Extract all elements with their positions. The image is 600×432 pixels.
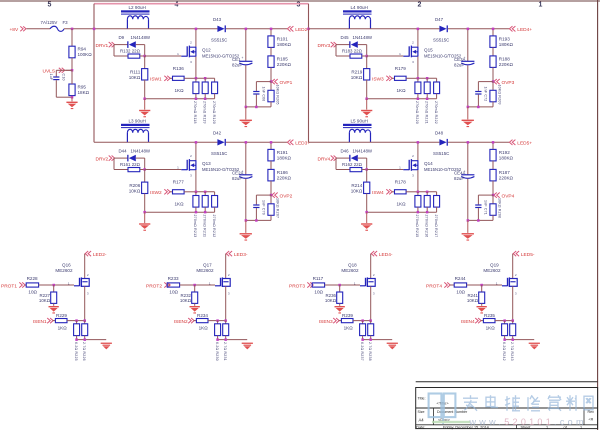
svg-text:1KΩ: 1KΩ: [486, 325, 496, 330]
resistor R244 10Ω: [450, 276, 502, 295]
ground gate pulldown: [190, 306, 200, 314]
diode D9 1N4148W: [114, 35, 151, 48]
svg-text:3: 3: [87, 292, 89, 296]
svg-text:10KΩ: 10KΩ: [39, 298, 51, 303]
wire sense bottom rail: [145, 211, 215, 213]
wire +8V rail to L4: [309, 28, 350, 30]
port DRV1: [96, 42, 115, 49]
svg-text:2: 2: [412, 154, 414, 158]
svg-text:5: 5: [48, 1, 52, 8]
node divider top junction: [270, 141, 273, 144]
transistor Q14 ME15N10-G/TO252: [399, 154, 462, 177]
ground channel source: [361, 212, 372, 231]
svg-text:D47: D47: [435, 17, 444, 22]
resistor R233 10Ω: [167, 276, 215, 295]
wire sense bottom rail: [505, 339, 535, 341]
svg-text:R244: R244: [455, 276, 466, 281]
wire Q19 source: [512, 286, 514, 320]
svg-text:R192: R192: [499, 150, 510, 155]
svg-text:18KΩ: 18KΩ: [78, 90, 90, 95]
svg-text:270mΩ R217: 270mΩ R217: [434, 215, 438, 238]
svg-text:10Ω: 10Ω: [169, 290, 178, 295]
sheet right border: [597, 0, 599, 430]
resistor R205 10KΩ: [268, 82, 280, 107]
resistor R111 10KΩ: [129, 56, 148, 99]
grid zone number 2: [418, 1, 422, 8]
svg-text:Q17: Q17: [203, 263, 212, 268]
node pulldown rail junction: [365, 211, 368, 214]
resistor R222 270mΩ: [434, 78, 440, 124]
svg-text:R162 22Ω: R162 22Ω: [342, 162, 363, 167]
svg-text:R178: R178: [395, 180, 406, 185]
resistor R191 180KΩ: [268, 142, 292, 161]
svg-text:1KΩ: 1KΩ: [58, 325, 68, 330]
port OVP3: [494, 79, 515, 86]
node sense bottom b: [224, 338, 227, 341]
svg-text:1N4148W: 1N4148W: [131, 35, 151, 40]
svg-text:1KΩ: 1KΩ: [175, 202, 185, 207]
svg-text:1N4148W: 1N4148W: [131, 149, 151, 154]
node cap ground junction: [245, 219, 248, 222]
svg-text:2.7Ω R226: 2.7Ω R226: [82, 342, 86, 361]
ground output cap: [240, 107, 252, 127]
wire LED2- to Q16 drain: [84, 254, 86, 279]
wire OVP bottom rail: [468, 106, 493, 108]
svg-text:Rev: Rev: [588, 410, 595, 414]
port OVP2: [272, 193, 293, 200]
resistor R235 1KΩ: [481, 313, 513, 330]
svg-text:D48: D48: [435, 131, 444, 136]
grid zone number 5: [48, 1, 52, 8]
svg-text:6.2Ω R237: 6.2Ω R237: [360, 342, 364, 361]
svg-text:1nF C71: 1nF C71: [483, 200, 487, 215]
node sense bottom b: [369, 338, 372, 341]
resistor R231 2.7Ω: [223, 321, 229, 361]
svg-text:LED3-: LED3-: [234, 252, 248, 258]
svg-text:10KΩ: 10KΩ: [325, 298, 337, 303]
svg-text:OVP3: OVP3: [502, 80, 515, 86]
svg-text:R228: R228: [27, 276, 38, 281]
ground channel source: [139, 99, 150, 118]
svg-text:1nF C70: 1nF C70: [261, 200, 265, 215]
svg-text:180KΩ: 180KΩ: [277, 156, 292, 161]
resistor R216 270mΩ: [424, 192, 430, 238]
port LED4+: [509, 26, 532, 33]
node UVLS: [71, 69, 74, 72]
port +8V: [10, 26, 27, 33]
resistor R132 22Ω: [114, 45, 145, 59]
node output cap junction: [467, 141, 470, 144]
resistor R220 270mΩ: [415, 78, 421, 124]
svg-text:+: +: [464, 170, 466, 174]
svg-text:R239: R239: [342, 313, 353, 318]
resistor R242 6.2Ω: [502, 321, 508, 361]
diode D46 1N4148W: [336, 149, 373, 162]
resistor R227 10KΩ: [39, 285, 57, 306]
svg-text:ISW3: ISW3: [372, 77, 384, 83]
svg-text:<R: <R: [589, 418, 594, 422]
node OVP rail junction: [477, 106, 480, 109]
svg-text:Q19: Q19: [490, 263, 499, 268]
svg-text:10KΩ: 10KΩ: [351, 189, 363, 194]
svg-text:82uF: 82uF: [232, 62, 242, 67]
node output cap junction: [245, 28, 248, 31]
resistor R208 10KΩ: [490, 195, 502, 220]
svg-text:Date:: Date:: [416, 426, 425, 430]
resistor R238 2.7Ω: [368, 321, 374, 361]
wire source sense rail: [196, 77, 215, 79]
wire source sense rail: [418, 77, 437, 79]
svg-text:270mΩ R220: 270mΩ R220: [415, 101, 419, 124]
node source junction: [417, 191, 420, 194]
node cap ground junction: [467, 219, 470, 222]
svg-text:3: 3: [412, 60, 414, 64]
svg-text:2: 2: [515, 273, 517, 277]
node sense top a: [503, 319, 506, 322]
svg-text:10Ω: 10Ω: [456, 290, 465, 295]
watermark url www.520101.com: [469, 417, 587, 427]
svg-text:ME2602: ME2602: [341, 268, 359, 273]
svg-text:+8V: +8V: [10, 27, 19, 33]
svg-text:10KΩ: 10KΩ: [129, 75, 141, 80]
port ISEN1: [33, 318, 53, 325]
svg-text:270mΩ R119: 270mΩ R119: [202, 101, 206, 124]
inductor L3 90uH: [121, 119, 150, 143]
node sense bottom junction b: [204, 211, 207, 214]
resistor R193 180KΩ: [490, 29, 514, 48]
transistor Q12 ME15N10-G/TO252: [177, 41, 240, 64]
node sense bottom b: [512, 338, 515, 341]
watermark book logo: [429, 394, 470, 425]
node sense bottom b: [84, 338, 87, 341]
resistor R228 10Ω: [25, 276, 74, 295]
svg-text:R193: R193: [499, 37, 510, 42]
capacitor CE2A 82uF: [232, 142, 252, 220]
svg-text:A4: A4: [419, 417, 425, 422]
wire OVP bottom rail: [246, 106, 271, 108]
wire gate to Q12: [145, 55, 182, 57]
wire source sense rail: [418, 191, 437, 193]
svg-text:ISEN3: ISEN3: [319, 319, 333, 325]
resistor R118 270mΩ: [193, 78, 199, 123]
node sense top a: [361, 319, 364, 322]
svg-text:LED2+: LED2+: [295, 27, 310, 33]
svg-text:2: 2: [228, 273, 230, 277]
svg-text:270mΩ R221: 270mΩ R221: [424, 101, 428, 124]
svg-text:1N4148W: 1N4148W: [353, 35, 373, 40]
svg-text:270mΩ R212: 270mΩ R212: [212, 215, 216, 238]
svg-text:Size: Size: [418, 410, 425, 414]
capacitor C10: [49, 70, 72, 97]
wire +8V rail to L5: [309, 141, 350, 143]
node gate junction: [365, 55, 368, 58]
svg-text:OVP4: OVP4: [502, 193, 515, 199]
svg-text:1KΩ: 1KΩ: [344, 325, 354, 330]
node sense rail junction: [204, 191, 207, 194]
wire sense bottom rail: [363, 339, 393, 341]
resistor R226 2.7Ω: [82, 321, 88, 361]
svg-text:82uF: 82uF: [454, 176, 464, 181]
svg-text:ISEN1: ISEN1: [33, 319, 47, 325]
svg-text:R183 22Ω: R183 22Ω: [342, 48, 363, 53]
node divider top junction: [270, 28, 273, 31]
wire Q15 drain: [417, 29, 419, 47]
node sense bottom junction a: [195, 98, 198, 101]
ground output cap: [462, 220, 474, 240]
svg-text:www.520101.com: www.520101.com: [469, 417, 587, 427]
wire D47 to output: [448, 28, 509, 30]
svg-text:PROT1: PROT1: [1, 284, 17, 290]
node bus/rail crossing left: [93, 28, 96, 31]
svg-text:R219: R219: [351, 70, 362, 75]
resistor R94: [69, 29, 92, 71]
node sense top b: [224, 319, 227, 322]
port UVLS: [43, 68, 73, 75]
port ISEN2: [174, 318, 194, 325]
resistor R237 6.2Ω: [360, 321, 366, 361]
wire sense bottom rail: [77, 339, 107, 341]
svg-text:LED5+: LED5+: [517, 141, 532, 147]
svg-text:C10: C10: [62, 74, 66, 81]
svg-text:1KΩ: 1KΩ: [397, 88, 407, 93]
node OVP rail junction: [255, 106, 258, 109]
node gate junction: [338, 284, 341, 287]
node divider top junction: [492, 28, 495, 31]
resistor R217 270mΩ: [434, 192, 440, 238]
svg-text:DRV1: DRV1: [96, 43, 109, 49]
node pulldown rail junction: [365, 98, 368, 101]
ground gate pulldown: [477, 306, 487, 314]
resistor R225 6.2Ω: [74, 321, 80, 361]
ground output cap: [462, 107, 474, 127]
resistor R214 10KΩ: [351, 170, 370, 213]
svg-text:10KΩ: 10KΩ: [180, 298, 192, 303]
port LED3+: [287, 140, 310, 147]
wire LED4- to Q18 drain: [370, 254, 372, 279]
svg-text:3: 3: [412, 173, 414, 177]
svg-text:CE1: CE1: [232, 57, 241, 62]
wire gate to Q13: [145, 169, 182, 171]
port OVP4: [494, 193, 515, 200]
wire OVP bottom rail: [468, 219, 493, 221]
node drain junction: [417, 28, 420, 31]
node drain junction: [195, 28, 198, 31]
diode D44 1N4148W: [114, 149, 151, 162]
inductor L2 90uH: [121, 5, 150, 29]
svg-text:ME2602: ME2602: [196, 268, 214, 273]
wire sense bottom rail: [218, 339, 248, 341]
svg-text:DRV3: DRV3: [318, 43, 331, 49]
resistor R221 270mΩ: [424, 78, 430, 124]
svg-text:270mΩ R222: 270mΩ R222: [434, 101, 438, 124]
resistor R188 220KΩ: [490, 47, 514, 81]
wire Q15 source: [417, 57, 419, 79]
svg-text:D43: D43: [213, 17, 222, 22]
port OVP1: [272, 79, 293, 86]
svg-text:3: 3: [228, 292, 230, 296]
svg-text:2: 2: [418, 1, 422, 8]
node sense top a: [75, 319, 78, 322]
transistor Q17 ME2602: [196, 263, 230, 296]
resistor R162 22Ω: [336, 158, 367, 172]
svg-text:PROT3: PROT3: [289, 284, 305, 290]
diode D43 SS515C: [211, 17, 227, 42]
port LED2+: [287, 26, 310, 33]
svg-text:F3: F3: [63, 20, 69, 25]
capacitor CE4A 82uF: [454, 142, 474, 220]
svg-text:R179: R179: [395, 66, 406, 71]
svg-text:DRV2: DRV2: [96, 157, 109, 163]
ground sense: [529, 343, 540, 350]
svg-text:2: 2: [412, 41, 414, 45]
svg-text:R214: R214: [351, 183, 362, 188]
svg-text:R117: R117: [313, 276, 324, 281]
node sense top b: [84, 319, 87, 322]
svg-text:7A/125V: 7A/125V: [41, 20, 58, 25]
node gate junction: [143, 55, 146, 58]
node sense bottom a: [503, 338, 506, 341]
node sense bottom junction a: [417, 211, 420, 214]
port LED4-: [371, 251, 393, 258]
svg-text:1N4148W: 1N4148W: [353, 149, 373, 154]
svg-text:+: +: [242, 170, 244, 174]
title block: [416, 382, 598, 430]
svg-text:R186: R186: [277, 170, 288, 175]
svg-text:PROT4: PROT4: [426, 284, 442, 290]
svg-text:1KΩ: 1KΩ: [175, 88, 185, 93]
node sense bottom a: [361, 338, 364, 341]
resistor R95: [69, 70, 90, 97]
node bus/rail crossing right: [307, 28, 310, 31]
svg-text:R229: R229: [56, 313, 67, 318]
resistor R119 270mΩ: [202, 78, 208, 123]
ground sense: [242, 343, 253, 350]
svg-text:2: 2: [373, 273, 375, 277]
sheet top border: [0, 0, 600, 2]
ground channel source: [361, 99, 372, 118]
resistor R192 180KΩ: [490, 142, 514, 161]
svg-text:270mΩ R215: 270mΩ R215: [415, 215, 419, 238]
svg-text:2: 2: [190, 41, 192, 45]
svg-text:10KΩ R209: 10KΩ R209: [497, 85, 501, 105]
svg-text:180KΩ: 180KΩ: [499, 42, 514, 47]
svg-text:L5 90uH: L5 90uH: [351, 119, 368, 124]
svg-text:270mΩ R118: 270mΩ R118: [193, 101, 197, 124]
svg-text:10KΩ: 10KΩ: [129, 189, 141, 194]
wire source sense rail: [196, 191, 215, 193]
grid zone number 3: [297, 1, 301, 8]
wire gate to Q15: [367, 55, 404, 57]
resistor R213 270mΩ: [193, 192, 199, 238]
node cap ground junction: [467, 106, 470, 109]
node pulldown rail junction: [143, 98, 146, 101]
svg-text:OVP1: OVP1: [280, 80, 293, 86]
svg-text:ISEN4: ISEN4: [461, 319, 475, 325]
inductor L4 90uH: [343, 5, 372, 29]
port ISW4: [372, 189, 392, 196]
svg-text:R234: R234: [197, 313, 208, 318]
wire LED3- to Q17 drain: [225, 254, 227, 279]
capacitor C72 1nF: [475, 82, 493, 107]
port DRV3: [318, 42, 337, 49]
node sense top b: [512, 319, 515, 322]
node gate junction: [480, 284, 483, 287]
wire Q14 drain: [417, 142, 419, 160]
svg-text:10Ω: 10Ω: [28, 290, 37, 295]
port ISEN3: [319, 318, 339, 325]
ground sense: [387, 343, 398, 350]
svg-text:D44: D44: [119, 149, 128, 154]
port LED3-: [226, 251, 248, 258]
wire +8V to fuse: [27, 28, 51, 30]
node output cap junction: [467, 28, 470, 31]
svg-text:R94: R94: [78, 47, 87, 52]
node sense rail junction: [426, 191, 429, 194]
wire L4 to diode: [349, 28, 439, 30]
svg-text:82uF: 82uF: [454, 62, 464, 67]
svg-text:R111: R111: [130, 70, 141, 75]
svg-text:+: +: [464, 56, 466, 60]
node sense bottom junction b: [204, 98, 207, 101]
svg-text:270mΩ R213: 270mΩ R213: [193, 215, 197, 238]
node drain junction: [195, 141, 198, 144]
node OVP junction: [270, 194, 273, 197]
node source junction: [195, 191, 198, 194]
svg-text:180KΩ: 180KΩ: [499, 156, 514, 161]
node drain junction: [417, 141, 420, 144]
capacitor CE1 82uF: [232, 29, 252, 107]
svg-text:10KΩ: 10KΩ: [351, 75, 363, 80]
svg-text:270mΩ R120: 270mΩ R120: [212, 101, 216, 124]
svg-text:LED4-: LED4-: [379, 252, 393, 258]
bus +8V top: [94, 3, 309, 5]
node OVP junction: [270, 80, 273, 83]
svg-text:SS515C: SS515C: [211, 151, 227, 156]
svg-text:R188: R188: [499, 57, 510, 62]
svg-text:82uF: 82uF: [232, 176, 242, 181]
node output cap junction: [245, 141, 248, 144]
node R95/C10 ground rail: [71, 96, 74, 99]
svg-text:220KΩ: 220KΩ: [499, 62, 514, 67]
svg-text:10KΩ R208: 10KΩ R208: [497, 198, 501, 218]
wire gate to Q14: [367, 169, 404, 171]
svg-text:L2 90uH: L2 90uH: [129, 5, 146, 10]
wire Q14 source: [417, 170, 419, 192]
port ISW3: [372, 76, 392, 83]
resistor R101 180KΩ: [268, 29, 292, 48]
fuse F3: [41, 20, 69, 31]
node OVP rail junction: [255, 219, 258, 222]
resistor R239 1KΩ: [339, 313, 371, 330]
port ISEN4: [461, 318, 481, 325]
svg-text:Q13: Q13: [202, 161, 211, 166]
svg-text:LED2-: LED2-: [93, 252, 107, 258]
svg-text:R206: R206: [129, 183, 140, 188]
wire Q12 drain: [195, 29, 197, 47]
svg-text:2.7Ω R243: 2.7Ω R243: [510, 342, 514, 361]
svg-text:3: 3: [515, 292, 517, 296]
svg-text:270mΩ R216: 270mΩ R216: [424, 215, 428, 238]
resistor R230 6.2Ω: [215, 321, 221, 361]
resistor R209 10KΩ: [490, 82, 502, 107]
port ISW2: [150, 189, 170, 196]
node cap ground junction: [245, 106, 248, 109]
svg-text:220KΩ: 220KΩ: [499, 176, 514, 181]
wire D48 to output: [448, 141, 509, 143]
svg-text:1KΩ: 1KΩ: [397, 202, 407, 207]
node sense bottom a: [75, 338, 78, 341]
transistor Q16 ME2602: [55, 263, 89, 296]
